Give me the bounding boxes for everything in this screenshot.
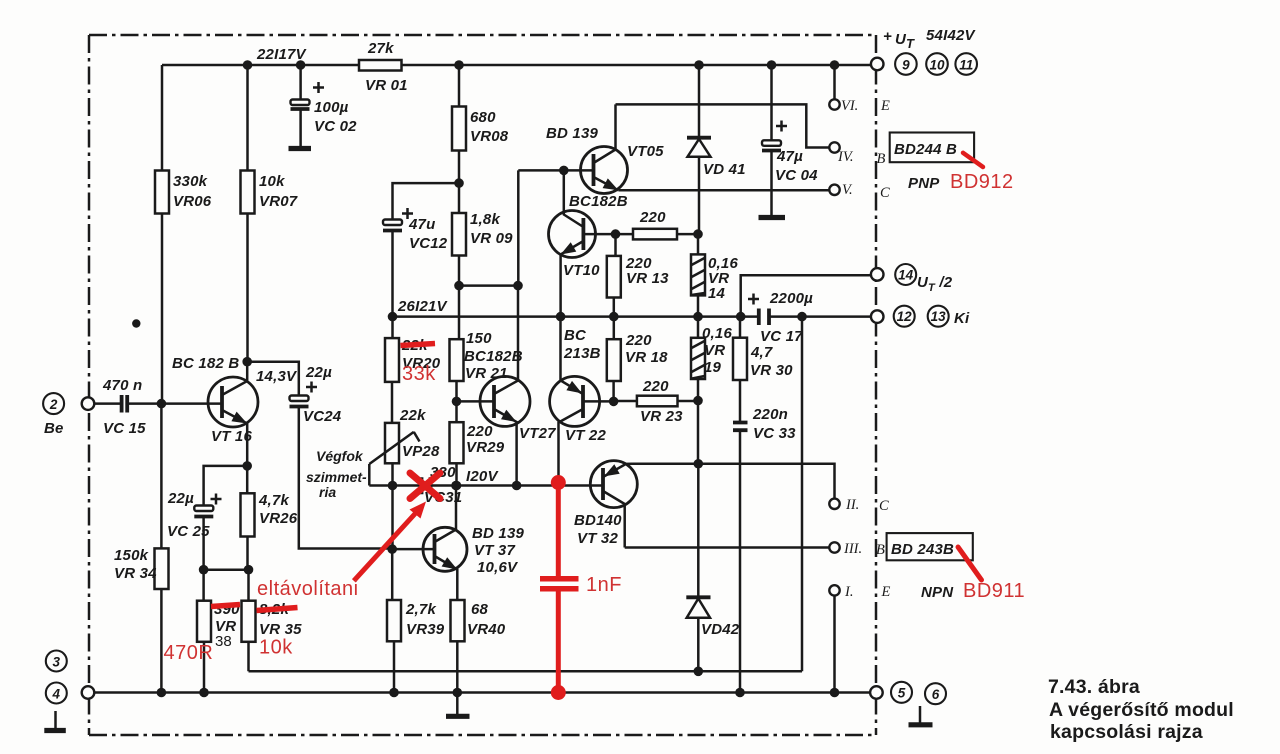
svg-text:BC: BC: [564, 327, 587, 344]
resistor VR06 330k: [155, 171, 212, 214]
terminal circled 11: [955, 53, 977, 75]
terminal V.: [829, 182, 890, 201]
svg-text:VR 18: VR 18: [625, 349, 668, 366]
svg-text:1,8k: 1,8k: [470, 211, 500, 228]
wire VP28 column to VT37 base: [391, 486, 394, 550]
svg-text:10k: 10k: [259, 173, 285, 190]
svg-text:680: 680: [470, 109, 496, 126]
svg-text:VT27: VT27: [519, 425, 556, 442]
wire VT32 emitter line to II: [633, 464, 835, 499]
svg-text:VR39: VR39: [406, 621, 445, 638]
resistor VR18 220: [607, 317, 668, 402]
svg-text:12: 12: [897, 309, 913, 324]
resistor VR21 150 BC182B: [450, 317, 523, 402]
svg-text:VT 22: VT 22: [565, 427, 606, 444]
svg-text:VR 21: VR 21: [465, 365, 508, 382]
svg-text:VT 16: VT 16: [211, 428, 252, 445]
svg-text:BC182B: BC182B: [464, 348, 523, 365]
svg-text:9: 9: [902, 58, 910, 73]
svg-text:II.: II.: [845, 497, 859, 513]
svg-text:BD911: BD911: [963, 580, 1025, 602]
wire VR08 branch: [458, 65, 461, 317]
svg-text:PNP: PNP: [908, 175, 940, 192]
svg-text:VD 41: VD 41: [703, 161, 746, 178]
svg-text:BD 139: BD 139: [546, 125, 599, 142]
svg-text:14,3V: 14,3V: [256, 368, 298, 385]
svg-text:150: 150: [466, 330, 492, 347]
node on rail (VI branch): [830, 60, 840, 70]
wire VT05 emitter rail to V: [618, 189, 830, 192]
wire bottom rail: [94, 691, 871, 694]
wire VR19 column to VD42: [697, 401, 700, 672]
svg-text:14: 14: [898, 268, 914, 283]
svg-text:220: 220: [466, 423, 493, 440]
svg-text:5: 5: [898, 686, 906, 701]
resistor VR35 8,2k(10k): [242, 570, 303, 672]
resistor VR20 22k(33k): [385, 317, 441, 423]
terminal 5: [870, 682, 912, 703]
wire VR09 link to VT05 base column: [459, 284, 518, 287]
svg-text:IV.: IV.: [837, 149, 854, 165]
wire VC24 bottom to VT37 base node: [299, 407, 392, 549]
svg-text:33k: 33k: [402, 363, 436, 385]
terminal 4: [46, 683, 94, 704]
node mid rail VC12/VR20: [388, 312, 398, 322]
wire emitter node to VC25: [204, 466, 248, 505]
svg-text:4,7: 4,7: [750, 344, 773, 361]
node on rail (VD41 top): [694, 60, 704, 70]
red annotation: strikethrough on 8,2k (VR35): [257, 608, 298, 611]
node link right end: [513, 281, 523, 291]
node bottom rail VR40: [453, 688, 463, 698]
svg-text:22µ: 22µ: [167, 490, 194, 507]
capacitor VC02 100µ: [291, 65, 358, 146]
svg-text:VT 37: VT 37: [474, 542, 515, 559]
transistor VT37 BD 139: [392, 486, 524, 601]
node VT37 collector on 120V line: [451, 481, 461, 491]
svg-text:BC 182 B: BC 182 B: [172, 355, 239, 372]
svg-text:26I21V: 26I21V: [397, 298, 449, 315]
svg-text:VC 17: VC 17: [760, 328, 803, 345]
node bottom rail I column: [830, 688, 840, 698]
resistor VR40 68: [451, 600, 506, 693]
svg-text:11: 11: [959, 58, 973, 73]
svg-text:BD 139: BD 139: [472, 525, 525, 542]
node on rail (VR08 top): [454, 60, 464, 70]
ground (bottom left): [44, 711, 66, 731]
transistor VT32 BD140: [574, 461, 637, 548]
diode VD41: [687, 65, 746, 231]
svg-text:+: +: [883, 28, 892, 45]
svg-text:VR07: VR07: [259, 193, 298, 210]
node bottom rail VC33: [735, 688, 745, 698]
svg-text:BD912: BD912: [950, 171, 1014, 193]
node VT27 emitter: [512, 481, 522, 491]
resistor VR26 4,7k: [241, 466, 298, 570]
svg-text:54I42V: 54I42V: [926, 27, 977, 44]
wire output column (mid rail to feedback line): [801, 317, 804, 672]
wire link to VC12: [393, 183, 460, 219]
transistor VT10 BC182B: [549, 170, 628, 316]
red capacitor 1nF added at output node: [540, 475, 579, 700]
node mid rail VT10e/VT22c: [556, 312, 566, 322]
svg-text:220: 220: [639, 209, 666, 226]
terminal 6: [925, 683, 946, 704]
svg-text:47u: 47u: [408, 216, 435, 233]
node bottom rail VR38: [199, 688, 209, 698]
transistor VT27 BC182B: [457, 376, 557, 485]
node VT37 base: [387, 544, 397, 554]
module boundary (dash-dot border): [89, 35, 876, 735]
svg-text:470 n: 470 n: [102, 377, 142, 394]
svg-text:47µ: 47µ: [776, 148, 803, 165]
red annotation: X over VC31: [410, 473, 440, 499]
node VR09 bottom: [454, 281, 464, 291]
svg-text:VR 23: VR 23: [640, 408, 683, 425]
component box BD244 B: [890, 133, 974, 163]
svg-text:Végfok: Végfok: [316, 448, 364, 464]
svg-text:VC 15: VC 15: [103, 420, 146, 437]
svg-text:0,16: 0,16: [702, 325, 732, 342]
svg-text:VR 34: VR 34: [114, 565, 157, 582]
node VR21 bottom / VT27 base: [452, 397, 462, 407]
svg-text:I20V: I20V: [466, 468, 499, 485]
node row right (VR35 top): [244, 565, 254, 575]
svg-text:III.: III.: [843, 541, 862, 557]
svg-text:100µ: 100µ: [314, 99, 349, 116]
caption 7.43. ábra: [1048, 676, 1234, 743]
transistor VT16 BC 182 B: [161, 355, 258, 466]
node VD42 bottom on feedback line: [694, 667, 704, 677]
node row left (VR38 top): [199, 565, 209, 575]
node mid rail VR30/term14: [736, 312, 746, 322]
label Végfok szimmetria: [306, 448, 367, 500]
svg-text:7.43. ábra: 7.43. ábra: [1048, 676, 1140, 698]
node VT22 base / VR18 bottom: [609, 397, 619, 407]
svg-text:10k: 10k: [259, 637, 293, 659]
wire collector to VC24: [247, 362, 299, 395]
terminal 14 UT/2: [871, 264, 953, 294]
svg-text:VC 04: VC 04: [775, 167, 818, 184]
svg-text:VR40: VR40: [467, 621, 506, 638]
svg-text:14: 14: [708, 285, 726, 302]
resistor VR14 0,16 (hatched): [691, 254, 738, 302]
trimmer VP28 22k: [369, 407, 440, 486]
svg-text:E: E: [880, 98, 890, 114]
terminal 3: [46, 651, 67, 672]
svg-text:38: 38: [215, 633, 232, 650]
terminal II.: [829, 497, 889, 514]
svg-text:13: 13: [931, 309, 947, 324]
svg-text:VR 30: VR 30: [750, 362, 793, 379]
transistor VT22 BC213B: [550, 317, 614, 483]
red annotation: arrow pointing at VC31: [354, 502, 426, 581]
resistor VR19 0,16 (hatched): [691, 317, 732, 401]
svg-text:10: 10: [929, 58, 945, 73]
svg-text:szimmet-: szimmet-: [306, 469, 367, 485]
node VR23 right / VR19 column: [693, 396, 703, 406]
svg-text:220: 220: [625, 332, 652, 349]
svg-text:VC 02: VC 02: [314, 118, 357, 135]
svg-text:4: 4: [52, 686, 61, 701]
red annotation: strikethrough on 22k (VR20): [401, 344, 436, 346]
svg-text:220: 220: [642, 378, 669, 395]
resistor VR38 390(470R): [197, 570, 240, 693]
svg-text:22I17V: 22I17V: [256, 46, 308, 63]
svg-text:VR 01: VR 01: [365, 77, 408, 94]
ground (under VR40): [446, 693, 470, 717]
svg-text:VT05: VT05: [627, 143, 664, 160]
wire VR13 top: [614, 234, 616, 317]
svg-text:2200µ: 2200µ: [769, 290, 813, 307]
svg-text:C: C: [879, 498, 889, 514]
resistor VR08 680: [452, 107, 509, 151]
node VT05 base / VT10 collector: [559, 166, 569, 176]
wire 120V node line: [369, 484, 603, 487]
component box BD 243B: [887, 533, 973, 560]
svg-text:22k: 22k: [399, 407, 426, 424]
svg-text:VR08: VR08: [470, 128, 509, 145]
wire VC25 bottom to node row: [202, 517, 205, 570]
svg-text:VT10: VT10: [563, 262, 600, 279]
svg-text:19: 19: [704, 359, 722, 376]
wire mid rail 26I21V / UT2: [393, 315, 872, 318]
terminal circled 10: [926, 53, 948, 75]
capacitor VC24 22µ: [290, 364, 342, 425]
svg-text:10,6V: 10,6V: [477, 559, 519, 576]
svg-text:C: C: [880, 185, 890, 201]
wire left branch (rail to input node): [161, 65, 164, 402]
terminal 9 +UT: [871, 27, 977, 70]
node on rail (VR07 top): [243, 60, 253, 70]
svg-text:kapcsolási rajza: kapcsolási rajza: [1050, 721, 1203, 743]
svg-text:213B: 213B: [563, 345, 601, 362]
capacitor VC12 47u: [383, 208, 448, 252]
svg-text:A végerősítő modul: A végerősítő modul: [1049, 699, 1234, 721]
resistor VR23 220: [614, 378, 698, 425]
wire VR14 column: [697, 234, 700, 317]
svg-text:2,7k: 2,7k: [405, 601, 436, 618]
node VT16 emitter: [242, 461, 252, 471]
wire VT32 collector line to III: [625, 546, 830, 549]
capacitor VC15 470n: [94, 377, 161, 437]
svg-text:3: 3: [53, 654, 61, 669]
node on rail (VC02 top): [296, 60, 306, 70]
svg-text:330k: 330k: [173, 173, 208, 190]
node mid rail VR13/VR18: [609, 312, 619, 322]
red annotation: line to BD912: [963, 153, 983, 167]
wire feedback line (VR35 to output column): [249, 670, 803, 673]
svg-text:VC 33: VC 33: [753, 425, 796, 442]
wire VR07 branch: [246, 65, 249, 362]
node bottom rail VR39: [389, 688, 399, 698]
terminal III.: [829, 541, 885, 558]
resistor VR30 4,7: [733, 317, 793, 422]
resistor VR01 27k: [359, 40, 408, 94]
svg-text:I.: I.: [844, 584, 853, 600]
terminal VI.: [829, 65, 890, 114]
resistor VR34 150k: [114, 404, 169, 693]
stray mark (registration dot): [132, 319, 140, 327]
svg-text:68: 68: [471, 601, 489, 618]
svg-text:BC182B: BC182B: [569, 193, 628, 210]
node VR08-VC12 link: [454, 178, 464, 188]
node bottom rail VR34: [157, 688, 167, 698]
wire VT05 base column down: [517, 170, 520, 380]
resistor VR13 220: [607, 255, 669, 298]
transistor VT05 BD 139: [518, 104, 664, 193]
resistor VR07 10k: [241, 171, 298, 214]
resistor VR29 220: [450, 401, 505, 485]
svg-text:VR06: VR06: [173, 193, 212, 210]
svg-text:NPN: NPN: [921, 584, 954, 601]
svg-text:220n: 220n: [752, 406, 788, 423]
ground (module, below 5-6): [909, 706, 933, 725]
svg-text:Ki: Ki: [954, 310, 970, 327]
ground (under VC02): [289, 146, 312, 151]
node VR19 column / collector line: [694, 459, 704, 469]
terminal 2 Be: [43, 393, 94, 437]
svg-text:Be: Be: [44, 420, 64, 437]
node VT16 collector / VR07: [242, 357, 252, 367]
svg-text:VR29: VR29: [466, 439, 505, 456]
capacitor VC25 22µ: [167, 490, 222, 540]
svg-text:UT /2: UT /2: [917, 274, 953, 294]
svg-text:eltávolítani: eltávolítani: [257, 578, 359, 600]
svg-text:VR 13: VR 13: [626, 270, 669, 287]
svg-text:VR 35: VR 35: [259, 621, 302, 638]
svg-text:1nF: 1nF: [586, 574, 622, 596]
wire VC12 to mid rail: [391, 231, 394, 317]
svg-text:2: 2: [49, 397, 58, 412]
svg-text:VD42: VD42: [701, 621, 740, 638]
wire node row y570: [204, 568, 249, 571]
svg-text:VR: VR: [704, 342, 725, 359]
svg-text:VC24: VC24: [303, 408, 342, 425]
capacitor VC31 330 (to be removed): [422, 464, 463, 506]
svg-text:VI.: VI.: [841, 98, 858, 114]
resistor VR09 1,8k: [452, 211, 513, 256]
svg-text:VP28: VP28: [402, 443, 440, 460]
node 220 right end: [693, 229, 703, 239]
wire terminal 14 branch: [741, 275, 872, 316]
node VR29 bottom: [452, 481, 462, 491]
resistor VR39 2,7k: [387, 549, 445, 692]
node mid rail output column: [797, 312, 807, 322]
node VP28 bottom: [388, 481, 398, 491]
svg-text:470R: 470R: [164, 642, 214, 664]
svg-text:BD244 B: BD244 B: [894, 141, 957, 158]
red annotation: line to BD911: [958, 547, 982, 580]
node mid rail VR14/VR19: [693, 312, 703, 322]
svg-text:VT 32: VT 32: [577, 530, 618, 547]
node input / VT16 base: [157, 399, 167, 409]
red annotation: strikethrough on 390 (VR38): [211, 605, 240, 607]
terminal I.: [829, 584, 890, 692]
svg-text:BD 243B: BD 243B: [891, 541, 954, 558]
svg-text:B: B: [877, 151, 886, 167]
svg-text:27k: 27k: [367, 40, 394, 57]
node on rail (VC04 top): [767, 60, 777, 70]
svg-text:4,7k: 4,7k: [258, 492, 289, 509]
terminal 12 13 Ki: [871, 306, 970, 327]
capacitor VC33 220n: [733, 406, 796, 692]
node VT10 base: [611, 229, 621, 239]
svg-text:ria: ria: [319, 484, 336, 500]
svg-text:B: B: [876, 542, 885, 558]
ground (under VC04): [759, 215, 786, 220]
svg-text:22µ: 22µ: [305, 364, 332, 381]
wire VT05 collector to IV: [616, 104, 831, 147]
resistor 220 (VT10 collector row): [616, 209, 699, 239]
svg-text:VR 09: VR 09: [470, 230, 513, 247]
svg-text:E: E: [881, 584, 891, 600]
diode VD42: [686, 597, 739, 638]
svg-text:VR26: VR26: [259, 510, 298, 527]
svg-text:150k: 150k: [114, 547, 149, 564]
capacitor VC17 2200µ: [748, 290, 813, 345]
capacitor VC04 47µ: [762, 65, 818, 215]
terminal IV.: [829, 142, 885, 167]
wire +UT top rail: [162, 64, 872, 67]
svg-text:VC12: VC12: [409, 235, 448, 252]
svg-text:6: 6: [932, 687, 940, 702]
terminal circled 9: [895, 53, 917, 75]
svg-text:V.: V.: [842, 182, 853, 198]
svg-text:UT: UT: [895, 31, 915, 51]
svg-text:BD140: BD140: [574, 512, 622, 529]
